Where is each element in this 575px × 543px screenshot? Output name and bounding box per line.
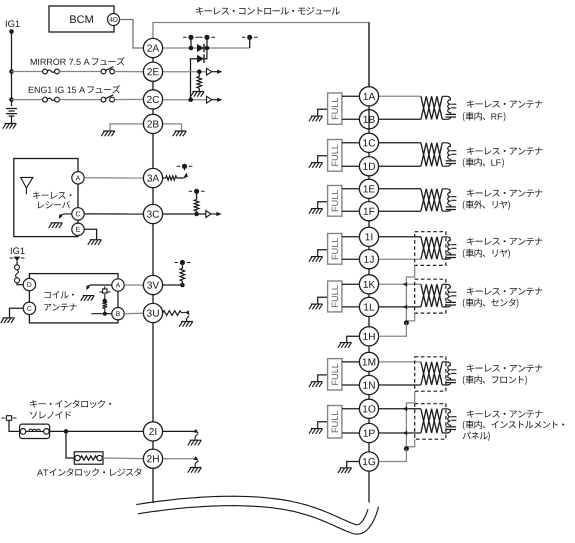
signal arrow <box>207 68 223 75</box>
wire <box>379 188 421 190</box>
junction <box>103 312 107 316</box>
wire <box>196 211 198 214</box>
junction <box>180 283 185 288</box>
wire <box>249 37 251 48</box>
wire right bus <box>368 23 370 87</box>
wire right bus <box>368 246 370 249</box>
power node <box>183 35 199 40</box>
wire left bus <box>152 323 154 422</box>
junction <box>9 97 14 102</box>
wire <box>342 258 360 260</box>
power feed arrow <box>10 257 25 262</box>
connector pin 1I <box>359 227 378 246</box>
fusible link <box>43 69 60 74</box>
label keyless antenna row 4 loc <box>463 249 510 259</box>
wire right bus <box>368 294 370 297</box>
hook <box>195 461 198 467</box>
wire right bus <box>368 269 370 275</box>
junction <box>9 69 14 74</box>
wire right bus <box>368 346 370 352</box>
twisted pair 1E/1F <box>421 189 442 211</box>
wire <box>181 265 183 268</box>
wire <box>379 283 421 285</box>
wire right bus <box>368 443 370 452</box>
label keyless receiver l1 <box>33 191 71 199</box>
wire right bus <box>368 471 370 502</box>
wire <box>379 258 421 260</box>
junction <box>197 69 202 74</box>
node IG1 <box>6 20 20 27</box>
wire harness curve <box>138 506 379 534</box>
wire <box>100 291 111 293</box>
connector pin 4D <box>108 14 120 26</box>
wire left bus <box>152 188 154 205</box>
resistor <box>194 200 199 212</box>
wire <box>16 261 18 265</box>
shield block FULL 1E/1F <box>328 186 342 217</box>
label ENG1 IG 15 A fuse <box>29 85 121 93</box>
wire <box>10 308 24 318</box>
connector pin 1E <box>359 179 378 198</box>
signal arrow <box>206 211 222 218</box>
splice <box>403 431 407 436</box>
junction <box>103 299 107 303</box>
shield block FULL 1M/1N <box>328 359 342 390</box>
connector pin C <box>72 208 84 220</box>
shield box 1O/1P <box>415 404 446 440</box>
wire <box>379 432 421 434</box>
label key interlock solenoid l2 <box>30 411 71 419</box>
ground <box>179 322 193 327</box>
ground <box>81 296 95 301</box>
wire <box>177 175 187 179</box>
label MIRROR 7.5 A fuse <box>31 57 125 65</box>
wire <box>181 281 183 285</box>
junction <box>205 46 210 51</box>
label keyless antenna row 3 loc <box>463 200 510 210</box>
arrowhead <box>59 214 63 219</box>
wire right bus <box>368 372 370 376</box>
tap <box>103 286 107 293</box>
label keyless antenna row 1 <box>467 100 542 108</box>
wire <box>379 165 421 167</box>
wire <box>59 71 101 73</box>
shield box 1M/1N <box>415 357 446 391</box>
junction <box>64 429 69 434</box>
resistor <box>197 77 202 89</box>
label keyless antenna row 3 <box>467 189 542 197</box>
fusible link <box>43 97 60 102</box>
junction <box>188 97 193 102</box>
shield ground row 1K/1L <box>309 297 328 309</box>
wire <box>342 210 360 212</box>
hook <box>187 316 189 322</box>
wire <box>163 71 207 73</box>
splice <box>403 282 407 287</box>
power node <box>242 35 258 40</box>
wire right bus <box>368 317 370 328</box>
wire <box>163 99 207 101</box>
wire <box>191 59 198 100</box>
wire <box>379 306 421 308</box>
shield block FULL 1I/1J <box>328 234 342 265</box>
connector pin C <box>23 302 35 314</box>
wire left bus <box>152 109 154 115</box>
wire <box>342 95 360 97</box>
wire <box>342 283 360 285</box>
shield ground row 1A/1B <box>309 109 328 121</box>
wire <box>379 384 421 386</box>
BCM module U1 <box>49 6 114 32</box>
wire <box>11 116 13 124</box>
shield ground row 1E/1F <box>309 202 328 214</box>
wire <box>104 294 106 301</box>
connector pin 2B <box>143 114 162 133</box>
battery plates <box>6 109 17 117</box>
wire <box>110 124 143 131</box>
ground <box>188 468 202 473</box>
wire <box>59 99 101 101</box>
fuse MIRROR 7.5A <box>101 67 114 74</box>
wire <box>342 142 360 144</box>
wire <box>204 50 207 58</box>
resistor <box>103 301 108 309</box>
ground <box>88 240 102 245</box>
connector pin A <box>112 279 124 291</box>
label keyless antenna row 4 <box>467 237 542 245</box>
wire <box>184 166 186 170</box>
wire <box>12 99 43 101</box>
wire left bus <box>152 441 154 449</box>
twisted pair 1O/1P <box>421 409 442 433</box>
connector pin 1J <box>359 250 378 269</box>
connector pin 1C <box>359 133 378 152</box>
ground <box>101 131 115 136</box>
key interlock solenoid <box>20 424 50 438</box>
label keyless antenna row 2 loc <box>463 158 504 168</box>
resistor <box>180 268 185 281</box>
connector pin 2A <box>143 38 162 57</box>
shield box 1K/1L <box>415 279 446 313</box>
wire <box>163 458 196 460</box>
label coil antenna l2 <box>44 303 77 310</box>
connector pin 1D <box>359 157 378 176</box>
twisted pair 1K/1L <box>421 284 442 307</box>
label keyless antenna row 7 loc <box>463 420 564 430</box>
wire right bus <box>368 418 370 423</box>
wire <box>12 71 43 73</box>
wire <box>342 306 360 308</box>
ground <box>338 468 352 473</box>
connector pin 1K <box>359 275 378 294</box>
label keyless antenna row 7 <box>467 410 542 418</box>
wire <box>379 95 421 97</box>
connector pin 1P <box>359 423 378 442</box>
AT resistor pin <box>97 455 102 460</box>
wire <box>104 308 106 313</box>
junction <box>194 212 199 217</box>
antenna coil row 1I/1J <box>442 237 456 259</box>
label coil antenna l1 <box>44 291 74 298</box>
connector pin 2H <box>143 449 162 468</box>
connector pin 1M <box>359 352 378 371</box>
wire right bus <box>368 106 370 133</box>
wire <box>347 462 360 468</box>
junction <box>404 446 409 451</box>
wire right bus <box>368 395 370 400</box>
wire <box>379 210 421 212</box>
wire shield drain 1M/1N <box>406 391 414 449</box>
label key interlock solenoid l1 <box>30 400 111 408</box>
wire <box>163 213 206 215</box>
twisted pair 1A/1B <box>421 96 442 119</box>
wire <box>84 213 143 215</box>
wire <box>84 177 143 179</box>
wire <box>120 20 144 49</box>
wire <box>91 313 112 315</box>
shield block FULL 1A/1B <box>328 93 342 124</box>
wire <box>379 408 421 410</box>
wire <box>347 336 360 342</box>
ground <box>173 131 187 136</box>
wire keyless control module boundary <box>153 23 369 88</box>
junction <box>404 320 409 325</box>
antenna coil row 1E/1F <box>442 189 456 211</box>
wire left bus <box>152 58 154 63</box>
wire <box>87 285 112 288</box>
power node <box>199 35 215 40</box>
antenna coil row 1K/1L <box>442 284 456 307</box>
connector pin 3C <box>143 204 162 223</box>
connector pin E <box>72 223 84 235</box>
antenna coil row 1O/1P <box>442 409 456 433</box>
wire <box>163 124 182 131</box>
arrowhead <box>194 429 199 433</box>
splice <box>403 305 407 310</box>
resistor <box>166 176 177 180</box>
arrowhead <box>194 456 199 460</box>
wire <box>60 214 72 217</box>
wire <box>84 229 96 239</box>
label keyless antenna row 5 <box>467 287 542 295</box>
connector <box>15 265 20 270</box>
label keyless antenna row 6 <box>467 364 542 372</box>
wire <box>124 284 143 286</box>
wire right bus <box>368 221 370 227</box>
shield ground row 1I/1J <box>309 250 328 262</box>
ground <box>3 124 17 129</box>
connector pin 1L <box>359 297 378 316</box>
wire <box>163 47 250 49</box>
shield block FULL 1O/1P <box>328 406 342 439</box>
arrowhead <box>86 285 90 290</box>
wire shield drain 1K/1L <box>406 313 414 323</box>
shield block FULL 1K/1L <box>328 281 342 312</box>
wire <box>342 361 360 363</box>
antenna coil row 1C/1D <box>442 143 456 166</box>
connector pin 2I <box>143 422 162 441</box>
connector pin 3V <box>143 275 162 294</box>
wire <box>102 457 143 460</box>
signal arrow <box>207 96 223 103</box>
label keyless control module <box>196 7 340 15</box>
connector pin 3U <box>143 303 162 322</box>
wire <box>342 384 360 386</box>
wire <box>163 430 196 432</box>
wire <box>379 361 421 363</box>
node IG1 <box>11 247 25 254</box>
twisted pair 1M/1N <box>421 362 442 385</box>
connector pin 1H <box>359 327 378 346</box>
wire <box>163 284 183 286</box>
connector pin 3A <box>143 168 162 187</box>
wire <box>163 177 166 179</box>
splice <box>403 407 407 412</box>
label AT interlock resistor <box>37 468 142 476</box>
wire <box>379 236 421 238</box>
power tap <box>2 416 17 421</box>
wire <box>342 236 360 238</box>
label keyless antenna row 7 loc <box>463 432 490 441</box>
wire <box>342 408 360 410</box>
wire <box>124 312 143 314</box>
wire <box>115 98 144 100</box>
hook <box>195 434 198 440</box>
coil antenna <box>29 274 118 323</box>
label keyless receiver l2 <box>38 201 70 209</box>
wire left bus <box>152 81 154 90</box>
arrowhead <box>186 310 190 315</box>
antenna <box>21 177 33 194</box>
connector pin B <box>112 308 124 320</box>
wire <box>379 449 407 462</box>
wire <box>206 37 208 48</box>
power node <box>177 164 193 169</box>
shield box 1I/1J <box>415 232 446 266</box>
ground <box>191 92 205 97</box>
label keyless antenna row 6 loc <box>463 375 527 385</box>
wire left bus <box>152 468 154 503</box>
coiled wire <box>16 270 19 278</box>
wire harness curve <box>136 496 368 525</box>
wire <box>49 430 143 432</box>
wire <box>342 118 360 120</box>
keyless receiver <box>14 159 78 237</box>
wire <box>198 88 200 91</box>
ground <box>338 343 352 348</box>
wire <box>198 72 200 77</box>
wire <box>115 71 144 73</box>
junction <box>9 29 14 34</box>
connector pin 2C <box>143 90 162 109</box>
wire <box>182 312 188 313</box>
shield block FULL 1C/1D <box>328 140 342 172</box>
twisted pair 1C/1D <box>421 143 442 166</box>
AT interlock resistor <box>74 452 103 464</box>
connector pin 2E <box>143 62 162 81</box>
label keyless antenna row 1 loc <box>463 112 506 122</box>
wire <box>190 37 192 48</box>
arrowhead <box>184 172 188 177</box>
wire <box>342 432 360 434</box>
wire <box>379 118 421 120</box>
connector pin 1O <box>359 399 378 418</box>
wire <box>342 165 360 167</box>
ground <box>1 318 15 323</box>
wire <box>66 431 75 458</box>
diode D1 <box>197 44 204 52</box>
wire left bus <box>152 295 154 304</box>
shield ground row 1M/1N <box>309 375 328 387</box>
connector <box>15 278 20 283</box>
wire <box>196 191 198 199</box>
junction <box>189 46 194 51</box>
power node <box>189 189 205 194</box>
wire <box>17 283 23 285</box>
wire <box>342 188 360 190</box>
resistor <box>163 311 182 316</box>
ground <box>188 440 202 445</box>
wire <box>11 32 13 107</box>
wire <box>379 142 421 144</box>
wire left bus <box>152 224 154 276</box>
wire right bus <box>368 176 370 179</box>
wire <box>379 323 407 336</box>
wire left bus <box>152 134 154 169</box>
fuse ENG1 IG 15A <box>101 95 114 102</box>
diode D2 <box>197 55 204 63</box>
wire right bus <box>368 152 370 156</box>
twisted pair 1I/1J <box>421 237 442 259</box>
connector pin A <box>72 172 84 184</box>
wire shield drain 1I/1J <box>406 265 414 323</box>
wire shield drain 1O/1P <box>406 439 414 449</box>
ground <box>49 223 63 228</box>
shield ground row 1O/1P <box>309 422 328 434</box>
label keyless antenna row 5 loc <box>463 298 519 308</box>
connector pin 1B <box>359 110 378 129</box>
connector pin D <box>23 278 35 290</box>
connector pin 1G <box>359 452 378 471</box>
antenna coil row 1M/1N <box>442 362 456 385</box>
power node <box>175 260 191 265</box>
wire right bus <box>368 198 370 201</box>
connector pin 1A <box>359 87 378 106</box>
connector pin 1F <box>359 202 378 221</box>
resistor <box>81 456 97 460</box>
wire <box>9 420 20 431</box>
connector pin 1N <box>359 375 378 394</box>
antenna coil row 1A/1B <box>442 96 456 119</box>
shield ground row 1C/1D <box>309 156 328 168</box>
label keyless antenna row 2 <box>467 147 542 155</box>
